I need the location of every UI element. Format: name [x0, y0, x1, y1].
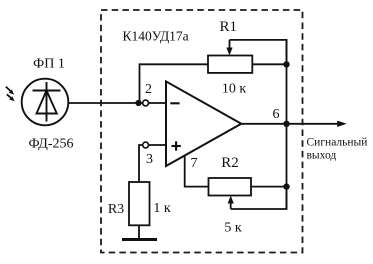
R2 wiper wire to right bus — [231, 190, 287, 209]
svg-text:выход: выход — [307, 150, 337, 162]
op-amp U1 triangle — [166, 81, 241, 166]
label ФП 1 — [33, 57, 65, 72]
photodiode VD1 circle — [22, 79, 69, 126]
label ФД-256 — [28, 137, 73, 152]
wire pin2 terminal to op-amp — [149, 102, 167, 104]
wire R2 right terminal to bus — [251, 186, 287, 188]
junction node R2/bus — [283, 183, 289, 189]
right vertical bus wire — [286, 40, 288, 209]
svg-text:R2: R2 — [221, 155, 239, 171]
ground — [122, 238, 157, 241]
label pin 7 — [191, 156, 198, 171]
svg-text:ФП 1: ФП 1 — [33, 57, 65, 72]
label R2 — [221, 155, 239, 171]
svg-text:R3: R3 — [108, 202, 124, 217]
label pin 6 — [273, 107, 280, 122]
resistor R3 body — [129, 182, 150, 225]
svg-text:R1: R1 — [220, 19, 238, 35]
R2 wiper arrow — [228, 196, 234, 210]
output wire pin 6 — [241, 123, 339, 125]
svg-text:К140УД17а: К140УД17а — [123, 28, 189, 43]
wire R3 to ground — [138, 225, 140, 239]
wire photodiode to inverting input node — [68, 102, 142, 104]
label R3 — [108, 202, 124, 217]
svg-text:10 к: 10 к — [222, 82, 247, 97]
op-amp plus sign — [172, 141, 181, 150]
label 5 к — [224, 221, 242, 236]
photodiode light arrow 2 — [7, 94, 15, 101]
photodiode light arrow 1 — [6, 87, 14, 95]
junction node pin2 — [135, 100, 141, 106]
output arrowhead — [337, 121, 347, 127]
label Сигнальный выход — [307, 137, 368, 162]
label pin 2 — [145, 82, 152, 97]
wire pin3 to R3 — [139, 145, 143, 182]
junction node R1/bus — [283, 61, 289, 67]
svg-text:6: 6 — [273, 107, 280, 122]
R1 wiper arrow — [226, 40, 232, 56]
resistor R2 body — [209, 178, 252, 196]
label R1 — [220, 19, 238, 35]
resistor R1 body — [208, 56, 252, 73]
pin 2 terminal circle — [143, 100, 149, 106]
pin 7 wire op-amp to R2 — [185, 156, 209, 187]
label 10 к — [222, 82, 247, 97]
R1 wiper wire to right bus — [230, 40, 287, 60]
svg-text:2: 2 — [145, 82, 152, 97]
label 1 к — [153, 201, 171, 216]
svg-text:5 к: 5 к — [224, 221, 242, 236]
svg-text:1 к: 1 к — [153, 201, 171, 216]
svg-text:ФД-256: ФД-256 — [28, 137, 73, 152]
junction node pin6/bus — [283, 121, 289, 127]
svg-text:7: 7 — [191, 156, 198, 171]
op-amp minus sign — [170, 102, 179, 104]
photodiode diode symbol — [33, 82, 61, 122]
wire pin3 terminal to op-amp — [149, 144, 167, 146]
svg-text:Сигнальный: Сигнальный — [307, 137, 368, 149]
dashed enclosure (IC boundary) — [101, 10, 303, 253]
svg-text:3: 3 — [146, 152, 153, 167]
wire R1 right terminal to bus — [252, 63, 286, 65]
label pin 3 — [146, 152, 153, 167]
pin 3 terminal circle — [143, 142, 149, 148]
label К140УД17а — [123, 28, 189, 43]
feedback wire node to R1 left — [140, 64, 209, 103]
